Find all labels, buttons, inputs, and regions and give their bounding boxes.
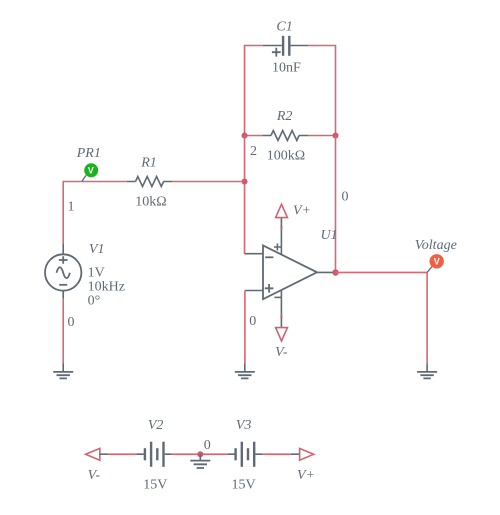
- junction dot R2 right: [333, 133, 339, 139]
- svg-text:V1: V1: [89, 242, 105, 257]
- wire top-left corner of C1 loop: [245, 46, 264, 136]
- wire top-right corner of C1 loop: [308, 46, 336, 136]
- ground under noninverting input: [235, 363, 255, 378]
- svg-text:Voltage: Voltage: [415, 238, 457, 253]
- svg-text:V-: V-: [88, 468, 101, 483]
- battery V3: [228, 442, 263, 467]
- wire left vertical down to inverting input: [244, 182, 246, 254]
- probe Voltage: [430, 254, 444, 268]
- svg-text:V: V: [434, 257, 440, 267]
- resistor R1: [127, 177, 172, 187]
- svg-text:1: 1: [68, 200, 75, 215]
- wire V1 to ground: [62, 299, 64, 364]
- wire V1 top corner to R1: [63, 182, 127, 245]
- wire noninverting input to ground: [244, 291, 246, 364]
- svg-text:0: 0: [249, 314, 256, 329]
- svg-text:V: V: [88, 166, 94, 176]
- svg-text:R1: R1: [140, 156, 157, 171]
- svg-text:0°: 0°: [88, 293, 101, 308]
- wire R2 right lead net: [308, 135, 336, 137]
- probe PR1: [84, 163, 98, 177]
- op-amp U1: [245, 218, 336, 328]
- svg-text:0: 0: [68, 315, 75, 330]
- junction dot R2 left: [242, 133, 248, 139]
- battery V2: [136, 442, 171, 467]
- svg-text:15V: 15V: [232, 478, 256, 493]
- svg-text:V3: V3: [236, 418, 252, 433]
- power arrow V+: [276, 204, 288, 217]
- power arrow V+ rail: [300, 448, 314, 460]
- svg-text:R2: R2: [276, 109, 293, 124]
- svg-text:10kΩ: 10kΩ: [135, 195, 166, 210]
- svg-text:PR1: PR1: [76, 146, 101, 161]
- svg-text:C1: C1: [276, 20, 292, 35]
- svg-text:10kHz: 10kHz: [88, 279, 125, 294]
- wire output to probe corner and down: [336, 272, 428, 363]
- wire V2 to V3 through ground node: [172, 453, 228, 455]
- ground under output wire: [417, 363, 437, 378]
- junction dot R1 feedback node: [242, 179, 248, 185]
- junction dot supply midpoint: [197, 451, 203, 457]
- wire R1 to feedback node: [172, 181, 245, 183]
- ground supply midpoint: [190, 454, 210, 468]
- ground under V1: [53, 363, 73, 378]
- svg-text:V-: V-: [275, 345, 288, 360]
- voltage source V1: [45, 244, 81, 299]
- svg-text:2: 2: [250, 144, 257, 159]
- wire V3 to V+ arrow: [263, 453, 291, 455]
- power arrow V-: [276, 328, 288, 341]
- svg-text:10nF: 10nF: [272, 61, 301, 76]
- svg-text:100kΩ: 100kΩ: [267, 149, 305, 164]
- power arrow V- rail: [86, 448, 100, 460]
- svg-text:0: 0: [204, 438, 211, 453]
- wire V+ arrow stub: [291, 453, 300, 455]
- resistor R2: [262, 131, 308, 141]
- junction dot output: [332, 269, 338, 275]
- svg-text:V2: V2: [148, 418, 164, 433]
- svg-text:0: 0: [342, 190, 349, 205]
- capacitor C1: [263, 36, 308, 57]
- wire R2 left lead net: [245, 135, 263, 137]
- wire right vertical to output: [335, 136, 337, 273]
- pin tick V+: [280, 226, 282, 229]
- pin tick V-: [280, 316, 282, 319]
- wire left vertical between R2 and R1 junction: [244, 136, 246, 182]
- probe PR1 leader: [82, 175, 86, 181]
- wire V- arrow stub: [100, 453, 109, 455]
- wire V- arrow to V2: [108, 453, 136, 455]
- svg-text:U1: U1: [320, 228, 337, 243]
- svg-text:V+: V+: [293, 204, 311, 219]
- svg-text:V+: V+: [297, 468, 315, 483]
- svg-text:1V: 1V: [88, 266, 105, 281]
- probe Voltage leader: [427, 267, 432, 273]
- svg-text:15V: 15V: [143, 478, 167, 493]
